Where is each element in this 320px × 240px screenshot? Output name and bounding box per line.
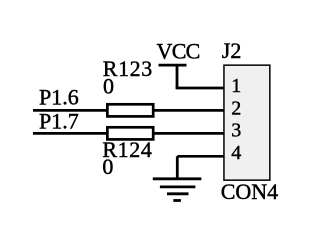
wire net P1.7 to pin 3: [33, 132, 224, 135]
ground bar 2: [160, 185, 196, 188]
VCC power bar: [159, 64, 187, 67]
svg-text:1: 1: [231, 75, 241, 97]
ground stem: [176, 156, 179, 179]
resistor R123 body: [107, 104, 153, 116]
svg-text:0: 0: [102, 154, 113, 179]
svg-text:2: 2: [231, 98, 241, 120]
VCC stem wire: [176, 65, 179, 88]
wire VCC to pin 1: [176, 87, 224, 90]
svg-text:VCC: VCC: [157, 39, 200, 64]
wire pin 4 to ground: [177, 155, 224, 158]
wire net P1.6 to pin 2: [33, 109, 224, 112]
svg-text:3: 3: [231, 120, 241, 142]
ground bar 3: [167, 192, 189, 195]
svg-text:CON4: CON4: [221, 179, 278, 204]
svg-text:P1.6: P1.6: [39, 85, 79, 110]
svg-text:4: 4: [231, 142, 241, 164]
svg-text:0: 0: [103, 74, 114, 99]
resistor R124 body: [107, 127, 153, 139]
connector J2 box: [224, 65, 270, 180]
ground bar 4: [173, 199, 181, 202]
svg-text:P1.7: P1.7: [39, 109, 79, 134]
svg-text:J2: J2: [222, 38, 242, 63]
ground bar 1: [153, 177, 202, 180]
